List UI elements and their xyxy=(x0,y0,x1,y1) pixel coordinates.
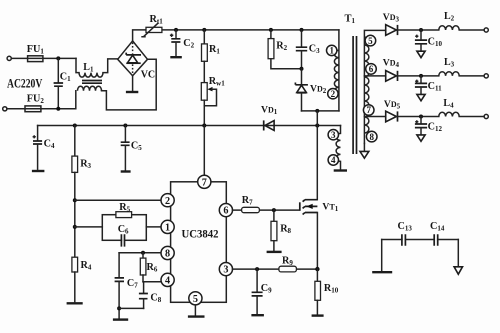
fuse FU2 xyxy=(25,106,41,112)
pin bubble 5 xyxy=(189,292,202,305)
wire xyxy=(76,58,79,72)
wire out3 xyxy=(397,116,485,118)
diode VD1 xyxy=(263,120,265,130)
terminal input bottom xyxy=(3,107,7,111)
resistor R2 xyxy=(270,30,272,39)
wire bridge top to rail xyxy=(133,30,146,41)
pin 8 xyxy=(366,131,377,142)
svg-text:VC: VC xyxy=(141,70,155,81)
T1 feedback winding xyxy=(336,133,340,161)
node R6 top xyxy=(141,251,145,255)
svg-text:4: 4 xyxy=(331,155,336,165)
pin 5 xyxy=(365,35,376,46)
wire tap pin7 xyxy=(364,116,385,118)
node bus drain xyxy=(315,124,319,128)
wire snubber bottom xyxy=(302,110,340,112)
svg-text:8: 8 xyxy=(165,249,170,260)
svg-text:AC220V: AC220V xyxy=(7,76,43,90)
svg-text:UC3842: UC3842 xyxy=(182,229,219,241)
terminal out3 xyxy=(484,114,488,118)
ground R8 xyxy=(267,251,282,253)
wire out2 xyxy=(397,75,485,77)
svg-text:7: 7 xyxy=(202,177,207,188)
svg-text:5: 5 xyxy=(368,36,373,46)
terminal out1 xyxy=(484,28,488,32)
capacitor C11 xyxy=(420,76,422,83)
pin bubble 7 xyxy=(198,175,211,188)
node C1 bottom xyxy=(56,107,60,111)
transformer T1 primary lead xyxy=(338,30,340,111)
ground arrow secondary xyxy=(363,143,365,151)
pin 6 xyxy=(366,64,377,75)
capacitor C7 xyxy=(118,253,120,278)
ground arrow C11 xyxy=(417,94,425,100)
resistor R9 xyxy=(279,266,297,272)
ground C5 xyxy=(121,170,131,172)
pin bubble 8 xyxy=(161,246,174,259)
pin bubble 3 xyxy=(219,263,232,276)
capacitor C13 xyxy=(382,239,435,241)
capacitor C2 xyxy=(175,30,177,39)
wire drain vertical xyxy=(316,111,318,200)
wire C8 bottom xyxy=(119,307,144,309)
resistor R4 xyxy=(72,257,78,272)
ground arrow C14 xyxy=(457,240,459,267)
pin bubble 1 xyxy=(161,220,174,233)
svg-text:6: 6 xyxy=(223,206,228,217)
capacitor C12 xyxy=(420,117,422,124)
capacitor C14 xyxy=(438,239,459,241)
svg-text:1: 1 xyxy=(165,223,170,234)
node C9 xyxy=(255,267,259,271)
ground R4 xyxy=(67,302,83,304)
capacitor C9 xyxy=(256,269,258,292)
wire pin3 row xyxy=(233,268,318,270)
node C12 xyxy=(419,115,423,119)
svg-text:8: 8 xyxy=(369,132,374,142)
wire pin6 to gate xyxy=(233,209,300,211)
node gate R8 xyxy=(272,208,276,212)
bridge rectifier VC xyxy=(118,41,148,76)
node C2 xyxy=(174,28,178,32)
pin 4 xyxy=(328,155,338,165)
resistor R5 xyxy=(116,212,132,218)
terminal out2 xyxy=(484,74,488,78)
svg-text:7: 7 xyxy=(366,105,371,115)
capacitor C10 xyxy=(420,30,422,40)
wire VCC bus xyxy=(38,125,341,127)
svg-text:2: 2 xyxy=(165,196,170,207)
wire xyxy=(103,59,118,73)
pin bubble 6 xyxy=(219,204,232,217)
ground xyxy=(170,56,182,58)
pin 2 xyxy=(328,89,338,99)
capacitor C3 xyxy=(301,30,303,47)
capacitor C6 xyxy=(122,238,124,242)
svg-text:2: 2 xyxy=(331,89,336,99)
capacitor C5 xyxy=(124,126,126,142)
pin 7 xyxy=(363,105,374,116)
ground C7 xyxy=(113,318,128,320)
inductor L2 xyxy=(439,26,459,30)
capacitor C8 xyxy=(143,282,145,293)
fuse FU1 xyxy=(28,56,43,62)
inductor L3 xyxy=(439,72,459,76)
node C7 bottom xyxy=(117,306,121,310)
zener VD2 xyxy=(301,69,303,85)
svg-text:4: 4 xyxy=(165,276,170,287)
diode VD4 xyxy=(386,71,397,82)
wire xyxy=(7,91,76,109)
svg-text:6: 6 xyxy=(369,64,374,74)
node C10 xyxy=(419,28,423,32)
wire xyxy=(11,57,76,59)
wire to pin1 xyxy=(146,226,164,228)
wire out1 xyxy=(397,29,485,31)
resistor R7 xyxy=(242,207,260,212)
wire tap pin6 xyxy=(364,75,385,77)
node R1 top xyxy=(202,28,206,32)
ground R10 xyxy=(312,314,324,316)
resistor R10 xyxy=(316,269,318,281)
thermistor Rt1 xyxy=(146,27,162,32)
wire xyxy=(102,59,157,110)
wire bridge bottom to ground xyxy=(132,76,134,91)
ground C9 xyxy=(251,314,264,316)
node C11 xyxy=(419,74,423,78)
transistor VT1 xyxy=(299,202,301,210)
svg-text:5: 5 xyxy=(193,294,198,305)
resistor R6 xyxy=(142,253,144,258)
node C1 top xyxy=(56,56,60,60)
node C3 top xyxy=(300,28,304,32)
wire pin8 xyxy=(119,252,164,254)
pin 3 xyxy=(328,130,338,140)
ground pin4 winding xyxy=(334,169,347,171)
wire bus to feedback winding xyxy=(340,126,342,134)
svg-text:1: 1 xyxy=(329,46,334,56)
inductor L1 top coil xyxy=(79,73,103,78)
IC U1 UC3842 box xyxy=(171,182,227,302)
capacitor C1 xyxy=(57,58,59,82)
resistor R3 xyxy=(74,126,76,157)
wire bus to pin7 xyxy=(203,126,205,179)
ground C13 xyxy=(381,240,383,272)
svg-text:3: 3 xyxy=(223,265,228,276)
node pin2 tap xyxy=(73,198,77,202)
node R2 top xyxy=(269,28,273,32)
L1 core xyxy=(82,81,102,84)
pin 1 xyxy=(327,45,337,55)
wire to RC block xyxy=(75,226,103,228)
wire to pin2 xyxy=(75,199,164,201)
pin bubble 2 xyxy=(161,194,174,207)
ground arrow C12 xyxy=(417,135,425,141)
node bus pin7 xyxy=(202,124,206,128)
diode VD3 xyxy=(386,25,397,36)
R5 C6 block frame xyxy=(102,215,146,241)
svg-text:3: 3 xyxy=(331,130,336,140)
ground pin5 xyxy=(194,305,196,315)
ground C4 xyxy=(32,170,45,172)
terminal input top xyxy=(7,56,11,60)
node bus C5 xyxy=(123,124,127,128)
node bus R3 xyxy=(73,124,77,128)
resistor R8 xyxy=(273,210,275,221)
T1 core xyxy=(353,36,356,154)
capacitor C4 xyxy=(37,126,39,141)
inductor L4 xyxy=(439,112,459,116)
ground arrow C10 xyxy=(417,51,425,57)
wire top rail xyxy=(146,29,339,31)
inductor L1 bottom coil xyxy=(78,86,102,91)
wire source vertical xyxy=(316,213,318,270)
node drain tap xyxy=(315,109,319,113)
diode VD5 xyxy=(386,111,397,122)
node source R10 xyxy=(315,267,319,271)
wire pin4 xyxy=(143,281,164,283)
pin bubble 4 xyxy=(161,273,174,286)
potentiometer Rw1 xyxy=(201,83,207,101)
ground xyxy=(126,91,138,93)
node pin1 tap xyxy=(73,225,77,229)
T1 secondary winding xyxy=(364,30,385,143)
node snubber xyxy=(300,67,304,71)
resistor R1 xyxy=(203,30,205,44)
T1 primary winding xyxy=(334,50,339,94)
